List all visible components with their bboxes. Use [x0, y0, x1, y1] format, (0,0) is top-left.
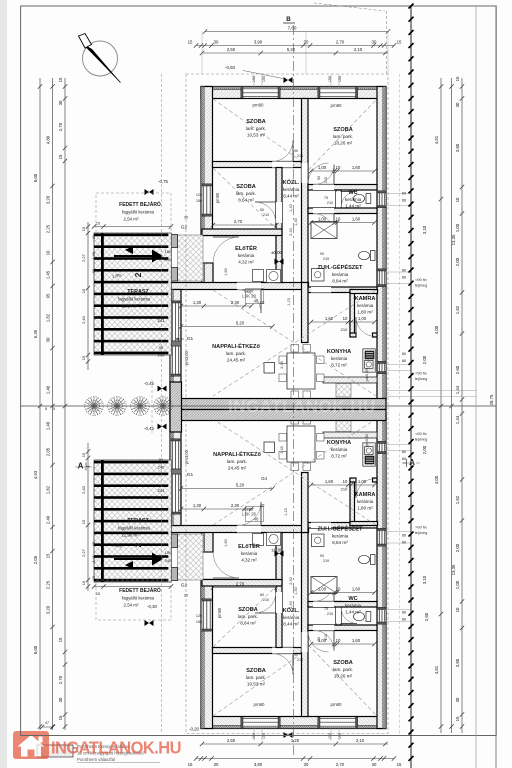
svg-text:1,60: 1,60 [325, 479, 334, 484]
svg-text:1,00: 1,00 [358, 316, 367, 321]
svg-text:INGATLANOK.HU: INGATLANOK.HU [228, 397, 376, 416]
svg-text:15: 15 [397, 40, 402, 45]
svg-text:2,05: 2,05 [46, 447, 51, 456]
svg-text:-0,75: -0,75 [158, 179, 169, 184]
svg-text:2,70: 2,70 [336, 40, 345, 45]
svg-text:8,64 m²: 8,64 m² [238, 198, 254, 203]
svg-text:100: 100 [165, 249, 172, 254]
svg-text:13,35: 13,35 [451, 234, 456, 245]
svg-text:pm3,00: pm3,00 [184, 449, 189, 464]
svg-text:150: 150 [196, 199, 202, 203]
svg-text:1,00: 1,00 [318, 217, 327, 222]
svg-text:5,20: 5,20 [287, 47, 296, 52]
svg-text:90: 90 [317, 176, 321, 180]
svg-text:15: 15 [455, 76, 460, 81]
svg-text:15: 15 [81, 355, 86, 360]
svg-text:95: 95 [91, 542, 96, 546]
svg-text:10: 10 [455, 197, 460, 202]
svg-text:8,44 m²: 8,44 m² [283, 194, 299, 199]
svg-text:10: 10 [336, 638, 341, 643]
svg-text:1,82: 1,82 [46, 313, 51, 322]
svg-text:2,10: 2,10 [354, 47, 363, 52]
svg-text:1,80 m²: 1,80 m² [357, 506, 373, 511]
svg-text:75: 75 [324, 607, 328, 611]
svg-text:30: 30 [304, 762, 309, 767]
svg-text:10: 10 [343, 479, 348, 484]
svg-text:2: 2 [133, 542, 143, 547]
svg-text:±0,00: ±0,00 [272, 548, 284, 553]
svg-text:1,00: 1,00 [318, 165, 327, 170]
svg-text:15: 15 [81, 519, 86, 524]
svg-text:1,48: 1,48 [46, 421, 51, 430]
svg-text:fagyálló kerámia: fagyálló kerámia [122, 210, 155, 215]
svg-text:47: 47 [45, 721, 49, 725]
svg-text:pm3,00: pm3,00 [184, 350, 189, 365]
svg-text:28,75: 28,75 [489, 394, 494, 405]
svg-text:210: 210 [297, 658, 303, 662]
svg-text:40: 40 [260, 503, 265, 508]
svg-text:10: 10 [336, 217, 341, 222]
svg-text:10,53 m²: 10,53 m² [247, 133, 266, 138]
svg-text:G4: G4 [261, 476, 267, 481]
svg-text:150: 150 [196, 620, 202, 624]
svg-text:kerámia: kerámia [238, 253, 255, 258]
svg-text:15: 15 [46, 553, 51, 558]
svg-text:2,05: 2,05 [33, 555, 38, 564]
svg-text:2,00: 2,00 [422, 445, 427, 454]
svg-text:1,15: 1,15 [287, 298, 291, 305]
svg-text:1,00: 1,00 [358, 479, 367, 484]
svg-text:1,44 m²: 1,44 m² [345, 204, 361, 209]
svg-text:15: 15 [58, 637, 63, 642]
svg-text:10: 10 [343, 316, 348, 321]
svg-text:10,26 m²: 10,26 m² [334, 141, 353, 146]
svg-text:95: 95 [91, 269, 96, 273]
svg-text:15: 15 [96, 592, 100, 596]
svg-text:NAPPALI-ÉTKEZő: NAPPALI-ÉTKEZő [212, 342, 260, 350]
svg-text:lam. park.: lam. park. [236, 191, 256, 196]
svg-text:15: 15 [81, 580, 86, 585]
svg-text:≈90 fix: ≈90 fix [415, 431, 426, 436]
svg-text:lam. park.: lam. park. [246, 675, 266, 680]
svg-text:1,00: 1,00 [318, 587, 327, 592]
svg-text:pm90: pm90 [253, 103, 265, 108]
svg-text:1,00: 1,00 [455, 580, 460, 589]
svg-text:INGATLANOK.HU: INGATLANOK.HU [51, 738, 181, 758]
svg-text:2,00: 2,00 [422, 355, 427, 364]
svg-text:2,27: 2,27 [81, 253, 86, 262]
svg-text:120: 120 [196, 193, 202, 197]
svg-text:pm90: pm90 [331, 702, 343, 707]
svg-text:3,90: 3,90 [254, 762, 263, 767]
svg-text:15: 15 [455, 716, 460, 721]
svg-text:fagyálló kerámia: fagyálló kerámia [118, 526, 151, 531]
svg-text:lam. park.: lam. park. [333, 667, 353, 672]
svg-text:8,64 m²: 8,64 m² [240, 621, 256, 626]
svg-text:SZOBA: SZOBA [236, 184, 256, 190]
svg-text:2,10: 2,10 [356, 738, 365, 743]
svg-text:kerámia: kerámia [241, 551, 258, 556]
svg-text:2,70: 2,70 [336, 762, 345, 767]
svg-text:210: 210 [341, 327, 348, 332]
svg-text:-0,20: -0,20 [189, 727, 200, 732]
svg-text:pm90: pm90 [254, 702, 266, 707]
svg-text:fagyálló kerámia: fagyálló kerámia [122, 596, 155, 601]
svg-text:lam. park.: lam. park. [226, 351, 246, 356]
svg-text:2,40: 2,40 [46, 515, 51, 524]
svg-text:2,00: 2,00 [455, 543, 460, 552]
svg-text:-0,30: -0,30 [147, 604, 158, 609]
svg-text:WC: WC [348, 190, 357, 196]
svg-text:90: 90 [294, 653, 298, 657]
svg-text:3,10: 3,10 [422, 575, 427, 584]
svg-text:30: 30 [214, 40, 219, 45]
svg-text:3,80: 3,80 [455, 143, 460, 152]
svg-text:fagyálló kerámia: fagyálló kerámia [118, 297, 151, 302]
svg-text:40: 40 [254, 517, 259, 522]
svg-text:4,00: 4,00 [434, 475, 439, 484]
svg-text:kerámia: kerámia [283, 615, 300, 620]
svg-text:5: 5 [53, 407, 55, 411]
svg-text:80: 80 [260, 593, 264, 597]
svg-text:kerámia: kerámia [332, 534, 349, 539]
svg-text:3,20: 3,20 [46, 195, 51, 204]
svg-text:TERASZ: TERASZ [127, 518, 149, 524]
svg-text:1,00: 1,00 [318, 638, 327, 643]
svg-text:30: 30 [455, 102, 460, 107]
svg-text:4,81: 4,81 [434, 665, 439, 674]
svg-text:1,45: 1,45 [46, 270, 51, 279]
svg-text:1,60: 1,60 [224, 539, 228, 546]
svg-text:2,27: 2,27 [81, 548, 86, 557]
svg-text:5,20: 5,20 [236, 321, 245, 326]
svg-text:Porotherm válaszfal: Porotherm válaszfal [77, 757, 115, 762]
svg-text:8,00: 8,00 [33, 173, 38, 182]
svg-text:pm90: pm90 [331, 103, 343, 108]
svg-text:2,00: 2,00 [455, 257, 460, 266]
svg-text:240: 240 [165, 558, 172, 563]
svg-text:8,44 m²: 8,44 m² [283, 622, 299, 627]
svg-text:G1: G1 [187, 472, 194, 478]
svg-text:KONYHA: KONYHA [327, 349, 351, 355]
svg-text:1,15: 1,15 [284, 508, 288, 515]
svg-text:15: 15 [58, 77, 63, 82]
svg-text:2,60: 2,60 [424, 612, 429, 621]
svg-text:150: 150 [328, 76, 332, 82]
svg-text:1,40: 1,40 [289, 204, 293, 211]
svg-text:1,44 m²: 1,44 m² [345, 610, 361, 615]
svg-text:tejüveg: tejüveg [415, 437, 428, 442]
svg-text:lam. park.: lam. park. [227, 459, 247, 464]
svg-text:1,45: 1,45 [91, 555, 96, 563]
svg-text:TERASZ: TERASZ [127, 289, 149, 295]
svg-text:210: 210 [327, 612, 333, 616]
svg-text:1,82: 1,82 [46, 485, 51, 494]
svg-text:150: 150 [262, 76, 266, 82]
svg-text:210: 210 [263, 213, 269, 217]
svg-text:1,60: 1,60 [352, 217, 361, 222]
svg-text:15: 15 [81, 452, 86, 457]
svg-text:pm0,90: pm0,90 [365, 434, 369, 447]
svg-text:1,80 m²: 1,80 m² [357, 310, 373, 315]
svg-text:10: 10 [336, 587, 341, 592]
svg-text:kerámia: kerámia [357, 303, 374, 308]
svg-text:pm0,90: pm0,90 [365, 369, 369, 382]
svg-text:kerámia: kerámia [331, 356, 348, 361]
svg-text:lam. park.: lam. park. [333, 134, 353, 139]
svg-text:4,93: 4,93 [33, 470, 38, 479]
svg-text:30: 30 [46, 337, 51, 342]
svg-text:SZOBA: SZOBA [238, 607, 258, 613]
svg-text:2,25: 2,25 [46, 580, 51, 589]
svg-text:2,45: 2,45 [280, 446, 284, 453]
svg-text:15: 15 [81, 226, 86, 231]
svg-text:90: 90 [320, 252, 324, 256]
svg-text:40: 40 [254, 299, 259, 304]
svg-text:150: 150 [252, 76, 256, 82]
svg-text:3,80: 3,80 [455, 658, 460, 667]
svg-text:≈90 fix: ≈90 fix [415, 277, 426, 282]
svg-text:ELőTÉR: ELőTÉR [235, 244, 257, 252]
svg-text:15: 15 [188, 40, 193, 45]
svg-text:2,70: 2,70 [58, 675, 63, 684]
svg-text:kerámia: kerámia [331, 447, 348, 452]
svg-text:1,44: 1,44 [455, 385, 460, 394]
svg-text:3,10: 3,10 [422, 225, 427, 234]
svg-text:2: 2 [133, 272, 143, 277]
svg-text:210: 210 [324, 177, 328, 183]
svg-text:2,60: 2,60 [455, 365, 460, 374]
svg-text:-0,45: -0,45 [144, 381, 155, 386]
svg-text:210: 210 [327, 201, 333, 205]
svg-text:tejüveg: tejüveg [415, 283, 428, 288]
svg-text:G2: G2 [181, 225, 188, 231]
svg-text:≈90 fix: ≈90 fix [415, 371, 426, 376]
svg-text:1,44: 1,44 [455, 415, 460, 424]
svg-text:240: 240 [165, 257, 172, 262]
svg-text:KAMRA: KAMRA [355, 492, 376, 498]
svg-text:2,70: 2,70 [236, 582, 245, 587]
svg-text:210: 210 [341, 487, 348, 492]
svg-text:2,40: 2,40 [81, 315, 86, 324]
svg-text:1,60: 1,60 [352, 587, 361, 592]
svg-text:4,81: 4,81 [434, 135, 439, 144]
svg-text:lam. park.: lam. park. [238, 614, 258, 619]
svg-text:5,20: 5,20 [236, 483, 245, 488]
svg-text:150: 150 [338, 76, 342, 82]
svg-text:30: 30 [455, 697, 460, 702]
svg-text:4,00: 4,00 [434, 325, 439, 334]
svg-text:tejüveg: tejüveg [415, 530, 428, 535]
svg-text:15: 15 [58, 715, 63, 720]
svg-text:ELőTÉR: ELőTÉR [238, 542, 260, 550]
svg-text:kerámia: kerámia [357, 499, 374, 504]
svg-text:tejüveg: tejüveg [415, 376, 428, 381]
svg-text:SZOBA: SZOBA [246, 668, 266, 674]
svg-text:80: 80 [260, 208, 264, 212]
svg-text:FEDETT BEJÁRÓ: FEDETT BEJÁRÓ [119, 586, 161, 594]
svg-text:15: 15 [188, 762, 193, 767]
svg-text:24,45 m²: 24,45 m² [228, 466, 247, 471]
svg-text:5: 5 [45, 407, 47, 411]
svg-text:10,26 m²: 10,26 m² [334, 674, 353, 679]
svg-text:ZUH.-GÉPÉSZET: ZUH.-GÉPÉSZET [318, 525, 363, 533]
svg-text:FEDETT BEJÁRÓ: FEDETT BEJÁRÓ [119, 200, 161, 208]
svg-text:219: 219 [323, 559, 329, 563]
svg-text:2,30: 2,30 [231, 300, 240, 305]
svg-text:-0,45: -0,45 [144, 426, 155, 431]
svg-text:SZOBA: SZOBA [333, 127, 353, 133]
svg-text:1,60: 1,60 [352, 638, 361, 643]
svg-text:30: 30 [372, 40, 377, 45]
svg-text:8,72 m²: 8,72 m² [331, 454, 347, 459]
svg-text:NAPPALI-ÉTKEZő: NAPPALI-ÉTKEZő [213, 450, 261, 458]
svg-text:1,40: 1,40 [289, 601, 293, 608]
svg-text:1,30: 1,30 [294, 587, 298, 594]
svg-text:8,84 m²: 8,84 m² [332, 540, 348, 545]
svg-text:30: 30 [372, 762, 377, 767]
svg-text:kerámia: kerámia [283, 187, 300, 192]
svg-text:15: 15 [397, 762, 402, 767]
svg-text:210: 210 [297, 154, 303, 158]
svg-text:lam. park.: lam. park. [246, 126, 266, 131]
svg-text:A: A [409, 458, 415, 467]
svg-text:30: 30 [214, 762, 219, 767]
svg-text:kerámia: kerámia [332, 272, 349, 277]
svg-text:2,45: 2,45 [280, 361, 284, 368]
svg-text:ZUH.-GÉPÉSZET: ZUH.-GÉPÉSZET [318, 263, 363, 271]
svg-text:100: 100 [165, 550, 172, 555]
svg-text:120: 120 [196, 614, 202, 618]
svg-text:kerámia: kerámia [345, 197, 362, 202]
svg-text:KONYHA: KONYHA [327, 440, 351, 446]
svg-text:4,32 m²: 4,32 m² [238, 260, 254, 265]
svg-text:95: 95 [46, 293, 51, 298]
svg-text:2,30: 2,30 [231, 503, 240, 508]
svg-text:40: 40 [260, 300, 265, 305]
svg-text:219: 219 [323, 257, 329, 261]
svg-text:1,60: 1,60 [224, 268, 228, 275]
svg-text:pm90: pm90 [217, 607, 222, 618]
svg-text:5,35: 5,35 [33, 329, 38, 338]
svg-text:3,20: 3,20 [46, 605, 51, 614]
svg-text:G2: G2 [181, 583, 188, 589]
svg-text:SZOBA: SZOBA [246, 119, 266, 125]
svg-text:1,00: 1,00 [455, 223, 460, 232]
svg-text:10: 10 [336, 165, 341, 170]
svg-text:8,00: 8,00 [33, 645, 38, 654]
svg-text:90: 90 [320, 554, 324, 558]
svg-text:1,82: 1,82 [455, 305, 460, 314]
svg-text:2,25: 2,25 [46, 224, 51, 233]
svg-text:15: 15 [81, 288, 86, 293]
svg-text:2,50: 2,50 [227, 738, 236, 743]
svg-text:KÖZL.: KÖZL. [283, 179, 300, 186]
svg-text:4,80: 4,80 [46, 135, 51, 144]
svg-text:90: 90 [294, 149, 298, 153]
svg-text:kerámia: kerámia [345, 603, 362, 608]
svg-text:4,32 m²: 4,32 m² [241, 558, 257, 563]
svg-text:1,20: 1,20 [291, 738, 300, 743]
svg-text:1,60: 1,60 [352, 165, 361, 170]
svg-text:1,30: 1,30 [193, 503, 202, 508]
svg-text:B: B [286, 16, 291, 23]
svg-text:10: 10 [46, 250, 51, 255]
svg-text:KAMRA: KAMRA [355, 296, 376, 302]
svg-text:2,50: 2,50 [227, 47, 236, 52]
svg-text:-0,93: -0,93 [225, 65, 236, 70]
svg-text:10: 10 [455, 607, 460, 612]
svg-text:8,72 m²: 8,72 m² [331, 363, 347, 368]
svg-text:1,40: 1,40 [46, 385, 51, 394]
svg-text:210: 210 [263, 598, 269, 602]
svg-text:30: 30 [304, 40, 309, 45]
svg-text:13,35: 13,35 [451, 564, 456, 575]
svg-text:±0,00: ±0,00 [271, 250, 283, 255]
svg-text:SZOBA: SZOBA [333, 660, 353, 666]
svg-text:≈90 fix: ≈90 fix [415, 525, 426, 530]
svg-text:WC: WC [348, 596, 357, 602]
svg-text:2,40: 2,40 [289, 577, 293, 584]
svg-text:15: 15 [96, 222, 100, 226]
svg-text:2,40: 2,40 [289, 228, 293, 235]
svg-text:15: 15 [58, 154, 63, 159]
svg-text:7,60: 7,60 [288, 26, 297, 31]
svg-text:10,53 m²: 10,53 m² [247, 682, 266, 687]
svg-text:3,90: 3,90 [254, 40, 263, 45]
svg-text:2,70: 2,70 [234, 219, 243, 224]
svg-text:2,54 m²: 2,54 m² [124, 603, 139, 608]
svg-text:30: 30 [58, 100, 63, 105]
svg-text:A: A [78, 462, 84, 471]
svg-text:1,30: 1,30 [294, 218, 298, 225]
svg-text:G1: G1 [187, 336, 194, 342]
svg-text:2,40: 2,40 [81, 485, 86, 494]
svg-text:2,54 m²: 2,54 m² [124, 217, 139, 222]
svg-text:1,30: 1,30 [193, 300, 202, 305]
svg-text:24,45 m²: 24,45 m² [227, 358, 246, 363]
svg-text:8,84 m²: 8,84 m² [332, 279, 348, 284]
svg-text:1,45: 1,45 [91, 252, 96, 260]
svg-text:2,70: 2,70 [58, 122, 63, 131]
svg-text:12,96 m²: 12,96 m² [121, 304, 139, 309]
svg-text:30: 30 [58, 697, 63, 702]
svg-text:1,60: 1,60 [325, 316, 334, 321]
svg-text:pm90: pm90 [215, 192, 220, 203]
svg-text:75: 75 [324, 196, 328, 200]
svg-text:1,82: 1,82 [455, 495, 460, 504]
svg-text:12,96 m²: 12,96 m² [121, 533, 139, 538]
